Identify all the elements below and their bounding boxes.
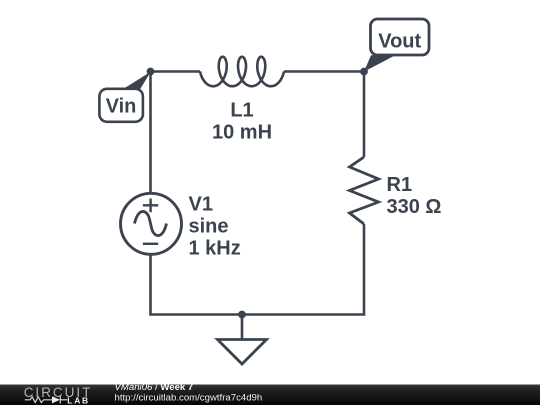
voltage source V1 minus sign	[143, 243, 158, 245]
logo diode triangle	[52, 396, 60, 403]
wire top left: node Vin to inductor	[151, 70, 201, 73]
resistor R1 zigzag	[350, 157, 379, 224]
footer bar	[0, 385, 540, 405]
wire left upper: node Vin down to V1 top	[149, 72, 152, 194]
net flag Vout pointer wedge	[364, 55, 395, 71]
voltage source V1 sine wave	[135, 211, 167, 235]
wire left lower + bottom rail + wire right lower (one path, square corners)	[151, 224, 365, 315]
voltage source V1 circle	[121, 193, 182, 254]
node dot Vin	[147, 68, 155, 76]
node dot ground junction	[238, 311, 246, 319]
svg-text:Vin: Vin	[106, 96, 137, 118]
wire ground stub	[241, 315, 244, 340]
svg-text:sine: sine	[189, 216, 229, 238]
svg-text:Vout: Vout	[378, 31, 421, 53]
svg-text:LAB: LAB	[67, 395, 90, 405]
svg-text:http://circuitlab.com/cgwtfra7: http://circuitlab.com/cgwtfra7c4d9h	[115, 393, 263, 404]
inductor L1 coil	[200, 57, 284, 87]
net flag Vout box	[371, 19, 430, 55]
svg-text:V1: V1	[189, 194, 213, 216]
net flag Vin pointer wedge	[123, 72, 151, 90]
svg-text:10 mH: 10 mH	[212, 122, 272, 144]
svg-text:330 Ω: 330 Ω	[387, 196, 442, 218]
node dot Vout	[360, 68, 368, 76]
svg-text:VMani06 / Week 7: VMani06 / Week 7	[115, 382, 194, 393]
ground symbol	[218, 340, 267, 365]
svg-text:L1: L1	[230, 99, 253, 121]
svg-text:1 kHz: 1 kHz	[189, 238, 241, 260]
svg-text:R1: R1	[387, 174, 413, 196]
net flag Vin box	[99, 89, 142, 122]
wire top right: inductor to node Vout	[284, 70, 364, 73]
logo squiggle resistor-diode	[25, 396, 67, 403]
voltage source V1 plus sign	[143, 199, 158, 213]
wire right upper: node Vout down to R1 top	[363, 72, 366, 158]
